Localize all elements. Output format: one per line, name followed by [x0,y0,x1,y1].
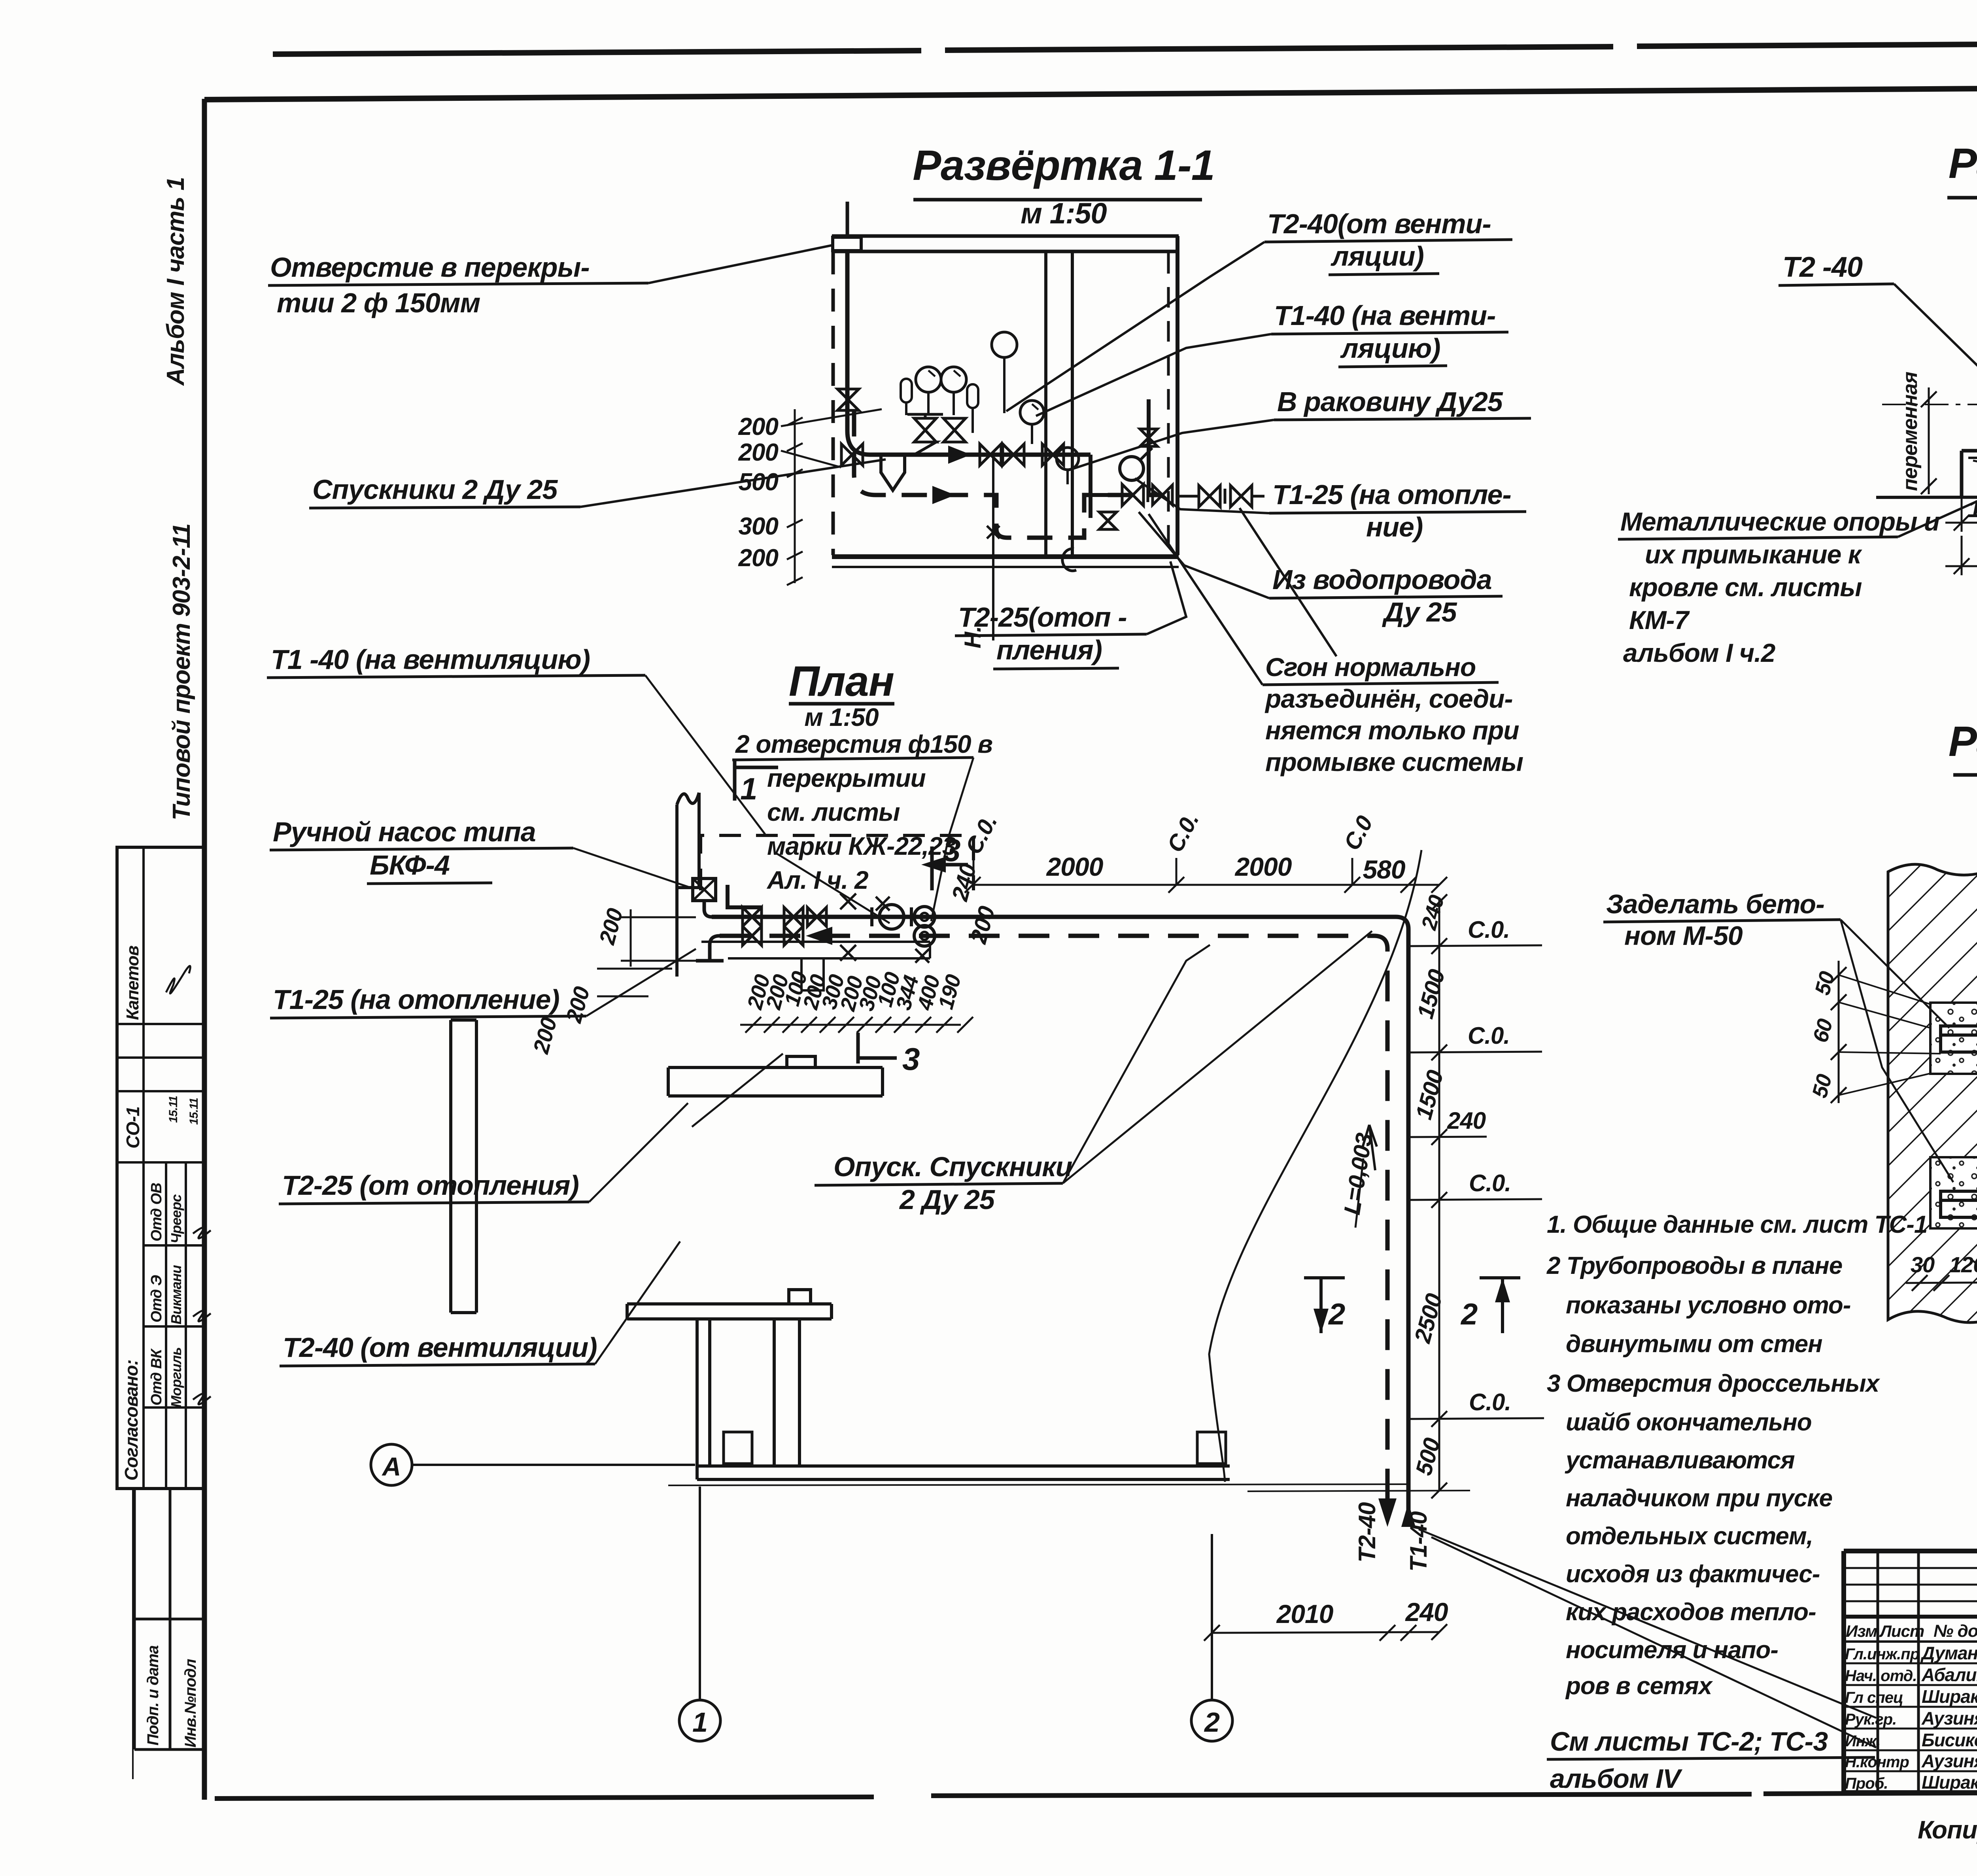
svg-text:2 Ду 25: 2 Ду 25 [899,1184,995,1215]
svg-text:няется только при: няется только при [1265,716,1519,745]
svg-text:Отд ВК: Отд ВК [148,1348,165,1406]
flow arrow on return [932,486,955,504]
concrete insert upper [1930,1003,1977,1074]
svg-text:Разрез 2-2: Разрез 2-2 [1949,139,1977,187]
svg-text:2010: 2010 [1276,1599,1334,1629]
x marks closed [840,894,929,963]
RAZREZ33 [1603,717,1977,1329]
svg-text:наладчиком при пуске: наладчиком при пуске [1566,1485,1832,1512]
svg-text:носителя и напо-: носителя и напо- [1566,1636,1778,1664]
svg-text:С.0.: С.0. [1468,1022,1510,1049]
svg-text:Копировал: Копировал [1918,1816,1977,1844]
left lower wall vertical [451,1020,476,1313]
svg-text:2: 2 [1460,1298,1478,1331]
svg-text:ляцию): ляцию) [1340,333,1440,364]
svg-text:Инж.: Инж. [1845,1732,1881,1750]
section marker 3 lower [858,1033,897,1064]
svg-text:Т2-40(от венти-: Т2-40(от венти- [1267,208,1491,239]
svg-text:30: 30 [1911,1252,1935,1277]
horizontal centerline [1882,404,1977,405]
svg-text:Ширакс: Ширакс [1922,1686,1977,1707]
svg-text:Ду 25: Ду 25 [1382,597,1457,627]
svg-text:3: 3 [943,833,960,868]
rotated signatures [193,1228,211,1404]
thermometer capsule T1 [901,379,912,415]
svg-text:А: А [382,1452,401,1481]
gauge G3 on main [1020,401,1044,444]
thin floor edge lines [668,1484,1470,1491]
svg-text:Аузиня: Аузиня [1921,1708,1977,1729]
svg-text:Т2-40: Т2-40 [1354,1502,1380,1562]
roof line [1876,497,1977,497]
svg-text:перекрытии: перекрытии [767,764,926,792]
lower horizontal wall [627,1290,832,1319]
arrow down on T2 [1378,1498,1397,1527]
svg-text:Отверстие в перекры-: Отверстие в перекры- [270,252,590,283]
svg-text:№ докум: № докум [1934,1621,1977,1641]
svg-text:Т1 -40 (на вентиляцию): Т1 -40 (на вентиляцию) [271,644,590,675]
C mark on return [1062,549,1076,571]
room ceiling beam [832,234,1179,238]
hole in slab marker [833,237,861,251]
svg-text:Капетов: Капетов [123,946,142,1020]
column left [724,1432,752,1464]
svg-text:Опуск. Спускники: Опуск. Спускники [834,1151,1072,1182]
header row [1844,1640,1977,1643]
section marker 3 upper [932,846,968,890]
label Опуск Спускники [815,931,1372,1215]
drain pocket [801,958,824,990]
approval table outer [117,847,204,1489]
svg-text:Развёртка 1-1: Развёртка 1-1 [913,141,1215,189]
label: В раковину Ду25 [1068,386,1531,470]
top dim line 2000 2000 580 [965,852,1447,893]
axis circle 2 [1191,1534,1232,1741]
svg-text:Нач. отд.: Нач. отд. [1845,1667,1917,1685]
dim ladder left of room [738,409,803,585]
room right wall [1176,236,1179,555]
return pipe dashed with jog [854,411,1162,538]
angle support upper [1941,1026,1977,1052]
svg-text:альбом IV: альбом IV [1550,1764,1683,1794]
valve V3 pair [980,444,1001,465]
svg-text:2: 2 [1328,1298,1345,1331]
svg-text:Ручной насос типа: Ручной насос типа [273,816,536,847]
mid horizontal wall [668,1056,883,1096]
svg-text:отдельных систем,: отдельных систем, [1566,1523,1813,1550]
sheet top edge [204,85,1977,100]
svg-text:200: 200 [738,413,779,440]
svg-text:В раковину Ду25: В раковину Ду25 [1277,386,1503,417]
leaders to См листы note [1419,1529,1876,1748]
arrow left on return [806,927,832,945]
angle support lower [1941,1191,1977,1217]
room left dashed wall [832,251,835,555]
label Т1-40 на вентиляцию [267,644,890,923]
dashed room outline [701,835,973,890]
vertical wall mid-to-bottom [774,1319,799,1466]
svg-text:Альбом I часть 1: Альбом I часть 1 [162,177,189,386]
label: Т1-40 на вентиляцию [1036,300,1508,416]
svg-text:200: 200 [738,544,779,572]
svg-text:их примыкание к: их примыкание к [1645,540,1863,569]
left frame edge [202,99,207,1800]
corner symbol [728,885,761,907]
label: Из водопровода Ду 25 [1139,512,1503,627]
gauge G2 [941,367,966,415]
dim ladder below assembly rotated numbers [740,969,973,1033]
svg-text:альбом I ч.2: альбом I ч.2 [1623,638,1776,667]
svg-text:Викмани: Викмани [168,1265,184,1324]
svg-text:БКФ-4: БКФ-4 [370,850,450,880]
inv table [134,1489,204,1749]
svg-text:С.0.: С.0. [1469,1389,1511,1415]
svg-text:2 отверстия ф150 в: 2 отверстия ф150 в [735,730,992,758]
svg-text:Типовой проект 903-2-11: Типовой проект 903-2-11 [168,524,195,820]
riser pipe above slab [846,202,849,237]
svg-text:ние): ние) [1366,512,1423,542]
valves on return [743,926,762,945]
svg-text:кровле см. листы: кровле см. листы [1629,572,1862,602]
right run СО branches [1408,916,1544,1419]
label: Отверстие в перекрытии [268,245,833,318]
svg-text:Моргиль: Моргиль [168,1347,184,1407]
svg-text:580: 580 [1363,855,1405,884]
svg-text:Аузиня: Аузиня [1921,1751,1977,1771]
svg-text:Из водопровода: Из водопровода [1272,564,1492,595]
name rows [1844,1663,1977,1771]
T1-25 exit valves outside wall [1179,486,1264,507]
svg-text:1. Общие данные см. лист ТС-1: 1. Общие данные см. лист ТС-1 [1547,1211,1927,1238]
svg-text:м 1:50: м 1:50 [804,703,879,731]
gauge G4 high left [992,332,1017,413]
leader into ladder [692,1054,783,1127]
svg-text:Изм: Изм [1846,1622,1877,1640]
svg-text:СО-1: СО-1 [123,1107,143,1149]
valve V1 at wall [841,444,863,465]
label: Т1-25 на отопление [1135,478,1526,542]
svg-text:Абалин: Абалин [1921,1664,1977,1685]
dim 2010 240 [1204,1597,1448,1641]
svg-text:Т2 -40: Т2 -40 [1782,251,1863,283]
svg-text:Т1-40: Т1-40 [1405,1511,1432,1572]
section marker 2 right [1460,1278,1520,1333]
svg-text:ких расходов тепло-: ких расходов тепло- [1566,1598,1816,1626]
svg-text:120: 120 [1949,1252,1977,1277]
flow meter [872,905,911,929]
svg-text:Т1-40 (на венти-: Т1-40 (на венти- [1274,300,1495,331]
svg-text:2: 2 [1204,1707,1220,1738]
svg-text:исходя из фактичес-: исходя из фактичес- [1566,1560,1820,1588]
main pipe solid [712,917,1408,1520]
svg-text:разъединён, соеди-: разъединён, соеди- [1264,684,1512,713]
note block 2 отверстия [732,730,992,921]
valve V4 pair [1042,444,1064,465]
label Т1-25 на отопление [270,949,696,1018]
leader from 200 dims to valves [781,409,882,467]
thin outer line [132,1489,134,1779]
flow arrow on main [948,446,971,464]
valve V2 on riser [837,389,859,410]
svg-text:Заделать бето-: Заделать бето- [1606,889,1824,919]
svg-text:Рук.гр.: Рук.гр. [1845,1711,1896,1728]
svg-text:Ширакс: Ширакс [1922,1772,1977,1793]
svg-text:Гл.инж.пр: Гл.инж.пр [1845,1646,1920,1663]
label Заделать бетоном М-50 [1603,889,1953,1182]
NOTES [1546,1211,1927,1795]
pump square [693,878,716,901]
label Металлические опоры [1618,501,1977,667]
RAZREZ22 [1618,139,1977,667]
svg-text:1: 1 [692,1707,707,1738]
svg-text:План: План [789,657,894,705]
svg-text:Т2-25(отоп -: Т2-25(отоп - [958,602,1127,633]
riser circles at corner [914,907,935,927]
valves on main [743,907,762,926]
svg-text:130: 130 [1968,495,1977,523]
section marker 2 left [1304,1278,1345,1333]
heat loop verticals [1091,399,1149,518]
drain line H [987,455,1000,640]
svg-text:200: 200 [738,439,779,466]
svg-text:ров в сетях: ров в сетях [1565,1672,1713,1700]
thin top rows [1844,1568,1977,1601]
svg-text:Чреерс: Чреерс [168,1194,184,1243]
svg-text:Думан: Думан [1920,1643,1977,1663]
svg-text:Бисикс: Бисикс [1922,1730,1977,1750]
outer box [1844,1551,1977,1793]
svg-text:показаны условно ото-: показаны условно ото- [1566,1292,1850,1319]
label: Сгон нормально [1149,508,1523,776]
dims bottom 30 120 200 85 [1906,1250,1977,1291]
pump drop to main [704,901,712,917]
return pipe dashed [720,936,1387,1520]
svg-text:Ал. I ч. 2: Ал. I ч. 2 [766,866,868,894]
svg-text:Подп. и дата: Подп. и дата [144,1645,162,1746]
svg-text:Согласовано:: Согласовано: [121,1360,142,1481]
safety valve pair [907,414,943,455]
svg-text:Металлические опоры и: Металлические опоры и [1620,507,1940,536]
water meter circle [1120,457,1143,480]
svg-text:ном М-50: ном М-50 [1624,921,1743,951]
svg-text:см. листы: см. листы [767,798,900,826]
room floor [832,554,1179,559]
label Т2-40 от вентиляции [280,1241,680,1366]
slope label [1339,1125,1378,1228]
svg-text:См листы ТС-2; ТС-3: См листы ТС-2; ТС-3 [1550,1727,1828,1757]
right run vertical dim line [1410,893,1450,1498]
gauge G1 [916,367,941,415]
svg-text:м 1:50: м 1:50 [1021,197,1107,230]
room right inner dashed [1167,253,1170,550]
label Т2-40 [1779,251,1977,395]
dim line 500 [1945,536,1977,575]
partition wall [1044,251,1047,555]
label: Т2-40 от вентиляции [1006,208,1512,411]
support diagonal detail [1973,461,1977,496]
svg-text:Гл спец: Гл спец [1845,1689,1903,1706]
svg-text:3: 3 [902,1041,920,1077]
x valve on loop [1099,512,1117,529]
согласовано block columns [144,1162,204,1489]
svg-text:15.11: 15.11 [187,1098,200,1125]
svg-text:Разрез 3-3: Разрез 3-3 [1949,717,1977,765]
svg-text:Проб.: Проб. [1845,1775,1888,1792]
LEFTMARG [117,177,211,1779]
support channel [1962,451,1977,497]
top band upper line [273,41,1977,54]
bottom frame edge [215,1791,1977,1799]
svg-text:2 Трубопроводы в плане: 2 Трубопроводы в плане [1546,1252,1842,1279]
wall hatched band [1888,864,1977,1322]
svg-text:300: 300 [739,513,779,540]
svg-text:1: 1 [740,771,757,806]
svg-text:переменная: переменная [1899,372,1922,491]
svg-text:Т1-25 (на отопление): Т1-25 (на отопление) [273,984,559,1015]
svg-text:ляции): ляции) [1331,241,1424,272]
riser pipe in room [847,251,870,455]
svg-text:промывке системы: промывке системы [1265,747,1523,776]
label Ручной насос типа БКФ-4 [270,816,694,889]
svg-text:Т1-25 (на отопле-: Т1-25 (на отопле- [1272,479,1511,510]
label: Спускники 2 Ду 25 [309,459,886,508]
section marker 1 flag [735,759,778,801]
svg-text:Инв.№подл: Инв.№подл [182,1659,199,1748]
PLAN [267,644,1876,1748]
arrow up on T1 [1401,1502,1416,1527]
axis circle 1 [679,1487,720,1741]
axis circle А [371,1444,695,1485]
svg-text:Сгон нормально: Сгон нормально [1265,652,1476,682]
bottom wall of building [697,1321,1230,1479]
label Т2-25 от отопления [279,1103,688,1204]
svg-text:КМ-7: КМ-7 [1629,605,1690,635]
svg-text:Т2-25 (от отопления): Т2-25 (от отопления) [282,1170,579,1201]
svg-text:С.0.: С.0. [1469,1170,1511,1196]
left table columns [1878,1551,1977,1793]
main supply pipe [870,453,1091,457]
svg-text:15.11: 15.11 [167,1096,180,1123]
svg-text:двинутыми от стен: двинутыми от стен [1566,1330,1822,1358]
svg-text:Т2-40 (от вентиляции): Т2-40 (от вентиляции) [283,1332,597,1363]
dim line 130 240 130 [1945,451,1977,532]
svg-text:устанавливаются: устанавливаются [1565,1447,1795,1474]
union sgon on return [1122,484,1172,506]
svg-text:Лист: Лист [1879,1622,1924,1640]
svg-text:шайб окончательно: шайб окончательно [1566,1409,1812,1436]
svg-text:пления): пления) [996,635,1102,665]
upper left wall [677,793,699,977]
svg-text:240: 240 [1447,1107,1486,1134]
approval table dividers [117,847,204,1162]
thermometer capsule T2 [967,384,978,433]
label Стена здания [1971,1259,1977,1329]
svg-text:тии 2 ф 150мм: тии 2 ф 150мм [277,287,480,318]
svg-text:2000: 2000 [1046,852,1104,881]
svg-text:Отд ОВ: Отд ОВ [148,1183,165,1241]
room lower wall lines [701,942,930,958]
mud filter bucket [881,455,905,490]
dims left 50 60 50 [1808,961,1941,1103]
svg-text:240: 240 [1404,1597,1448,1627]
x valve on sink riser [1140,429,1157,446]
svg-text:3 Отверстия дроссельных: 3 Отверстия дроссельных [1547,1370,1881,1397]
svg-text:Н.контр: Н.контр [1845,1753,1909,1771]
svg-text:Спускники 2 Ду 25: Спускники 2 Ду 25 [312,474,558,505]
left stub of return [696,936,724,961]
column right [1197,1432,1226,1464]
label: Т2-25 отопления [955,561,1186,669]
RAZV [268,141,1531,776]
svg-text:Отд Э: Отд Э [148,1275,165,1322]
concrete insert lower [1930,1157,1977,1228]
svg-text:2000: 2000 [1234,852,1292,881]
svg-text:С.0.: С.0. [1468,916,1510,943]
TITLEBLOCK [1844,1551,1977,1844]
gauge G5 on return [1057,448,1079,484]
paper crease curve [1209,850,1421,1482]
